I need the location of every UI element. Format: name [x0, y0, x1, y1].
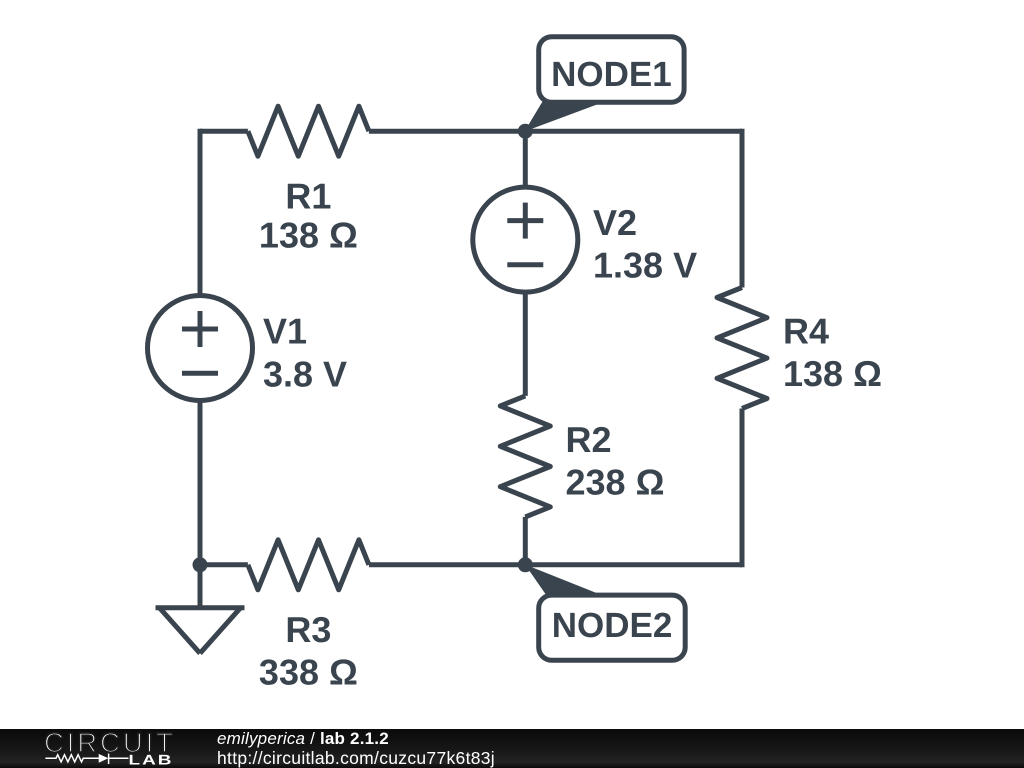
- footer author line: [217, 730, 817, 747]
- node junction dot ground: [193, 557, 208, 572]
- wire right rail upper: [740, 129, 745, 288]
- svg-text:LAB: LAB: [129, 752, 174, 768]
- wire R2 bottom lead: [523, 517, 528, 565]
- wire top-left horizontal: [200, 129, 248, 134]
- node junction dot NODE1: [518, 124, 533, 139]
- svg-text:R2: R2: [566, 419, 612, 460]
- wire V2 top lead: [523, 131, 528, 186]
- wire bottom horizontal to right rail: [369, 562, 742, 567]
- ground: [156, 608, 245, 654]
- resistor R2: [500, 396, 550, 517]
- svg-text:R1: R1: [285, 176, 331, 217]
- resistor R3: [248, 540, 369, 590]
- node NODE1 callout wedge: [525, 102, 602, 132]
- wire bottom-left horizontal: [200, 562, 248, 567]
- svg-text:138 Ω: 138 Ω: [783, 353, 882, 394]
- svg-text:R3: R3: [285, 609, 331, 650]
- resistor R4: [717, 288, 767, 409]
- svg-text:NODE1: NODE1: [551, 55, 672, 94]
- wire left rail lower: [198, 402, 203, 565]
- wire ground stub: [198, 565, 203, 608]
- svg-text:3.8 V: 3.8 V: [263, 354, 347, 395]
- voltage source V2: [473, 187, 578, 292]
- svg-text:138 Ω: 138 Ω: [259, 215, 358, 256]
- voltage source V1: [148, 296, 253, 401]
- svg-text:1.38 V: 1.38 V: [593, 245, 697, 286]
- svg-text:R4: R4: [783, 311, 829, 352]
- node NODE2 callout wedge: [525, 565, 599, 596]
- resistor R1: [248, 106, 369, 156]
- node NODE2 label box: [539, 595, 686, 660]
- svg-text:238 Ω: 238 Ω: [566, 462, 665, 503]
- CircuitLab logo: [0, 729, 200, 768]
- footer bar: [0, 729, 1024, 768]
- wire V2 to R2: [523, 293, 528, 396]
- svg-text:V2: V2: [593, 202, 637, 243]
- svg-text:338 Ω: 338 Ω: [259, 652, 358, 693]
- svg-text:V1: V1: [263, 310, 307, 351]
- svg-text:NODE2: NODE2: [552, 606, 673, 645]
- node junction dot NODE2: [518, 557, 533, 572]
- wire right rail lower: [740, 409, 745, 568]
- footer url line: [217, 750, 817, 768]
- wire left rail upper: [198, 129, 203, 295]
- wire top horizontal to right rail: [369, 129, 742, 134]
- node NODE1 label box: [539, 37, 684, 103]
